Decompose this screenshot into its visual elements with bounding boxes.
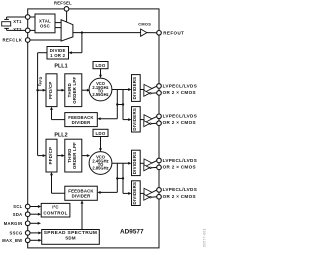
svg-text:LVPECL/LVDS: LVPECL/LVDS [163,83,198,88]
svg-text:DIVIDERS: DIVIDERS [132,182,137,205]
svg-text:PFD/CP: PFD/CP [48,81,53,99]
svg-text:OR 2 × CMOS: OR 2 × CMOS [163,194,196,199]
svg-text:OSC: OSC [40,23,50,28]
svg-text:DIVIDER: DIVIDER [72,194,92,199]
svg-text:SCL: SCL [13,204,22,209]
svg-text:ORDER LPF: ORDER LPF [72,77,77,104]
svg-text:LDO: LDO [95,63,105,68]
svg-text:SSCG: SSCG [9,230,22,235]
svg-text:DIVIDERS: DIVIDERS [132,152,137,175]
svg-text:OR 2 × CMOS: OR 2 × CMOS [163,164,196,169]
svg-text:ORDER LPF: ORDER LPF [72,142,77,169]
svg-text:I²C: I²C [52,204,59,209]
svg-text:CONTROL: CONTROL [43,211,67,216]
svg-text:LVPECL/LVDS: LVPECL/LVDS [163,158,198,163]
svg-text:1 OR 2: 1 OR 2 [50,53,65,58]
svg-text:MAX_BW: MAX_BW [2,238,22,243]
svg-text:LVPECL/LVDS: LVPECL/LVDS [163,114,198,119]
svg-text:2.55GHz: 2.55GHz [92,92,108,97]
svg-text:PLL2: PLL2 [54,133,67,139]
svg-text:DIVIDER: DIVIDER [72,120,92,125]
svg-text:SDM: SDM [65,236,76,241]
svg-text:AD9577: AD9577 [120,229,144,236]
svg-text:DIVIDERS: DIVIDERS [132,77,137,100]
svg-text:OR 2 × CMOS: OR 2 × CMOS [163,120,196,125]
svg-text:REFOUT: REFOUT [163,31,184,36]
svg-text:PFD/CP: PFD/CP [48,147,53,165]
svg-text:XT1: XT1 [13,19,22,24]
svg-text:09577-001: 09577-001 [203,228,207,247]
svg-text:CMOS: CMOS [138,22,151,27]
svg-text:LDO: LDO [95,131,105,136]
svg-text:PLL1: PLL1 [54,64,67,70]
svg-text:MARGIN: MARGIN [4,221,23,226]
svg-text:LVPECL/LVDS: LVPECL/LVDS [163,187,198,192]
svg-text:REFCLK: REFCLK [2,37,22,42]
svg-text:DIVIDERS: DIVIDERS [132,108,137,131]
svg-text:REFSEL: REFSEL [54,0,72,5]
svg-text:XT2: XT2 [13,27,22,32]
svg-text:2.85GHz: 2.85GHz [92,166,108,171]
svg-text:SDA: SDA [13,212,23,217]
svg-text:OR 2 × CMOS: OR 2 × CMOS [163,90,196,95]
